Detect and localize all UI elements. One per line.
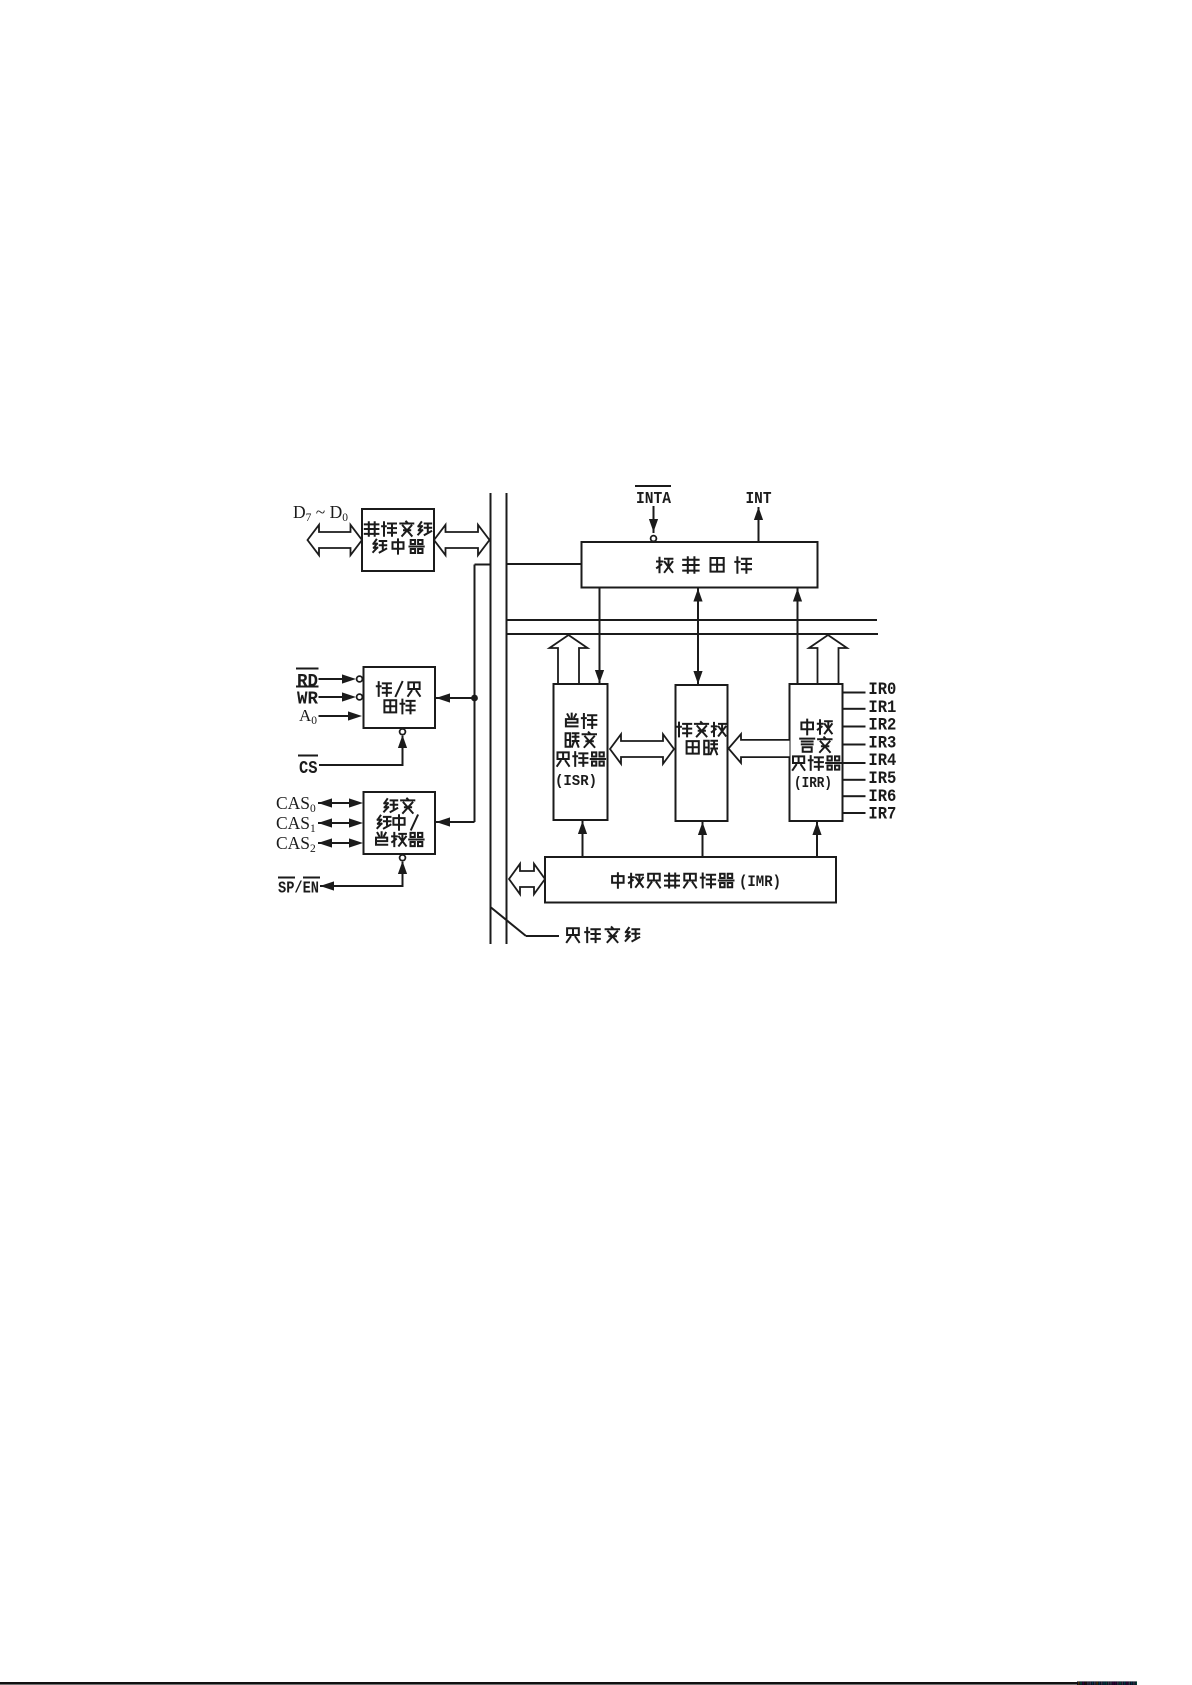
svg-text:CAS0: CAS0 xyxy=(276,793,316,815)
svg-text:SP/EN: SP/EN xyxy=(278,880,319,899)
svg-text:(IRR): (IRR) xyxy=(794,775,832,792)
svg-text:CAS1: CAS1 xyxy=(276,813,316,835)
svg-text:CAS2: CAS2 xyxy=(276,833,316,855)
svg-text:(ISR): (ISR) xyxy=(555,773,597,790)
svg-text:CS: CS xyxy=(299,758,318,779)
svg-text:D7 ~ D0: D7 ~ D0 xyxy=(293,502,348,524)
svg-text:(IMR): (IMR) xyxy=(739,873,781,891)
svg-text:IR7: IR7 xyxy=(868,805,896,825)
svg-text:INT: INT xyxy=(746,490,772,509)
